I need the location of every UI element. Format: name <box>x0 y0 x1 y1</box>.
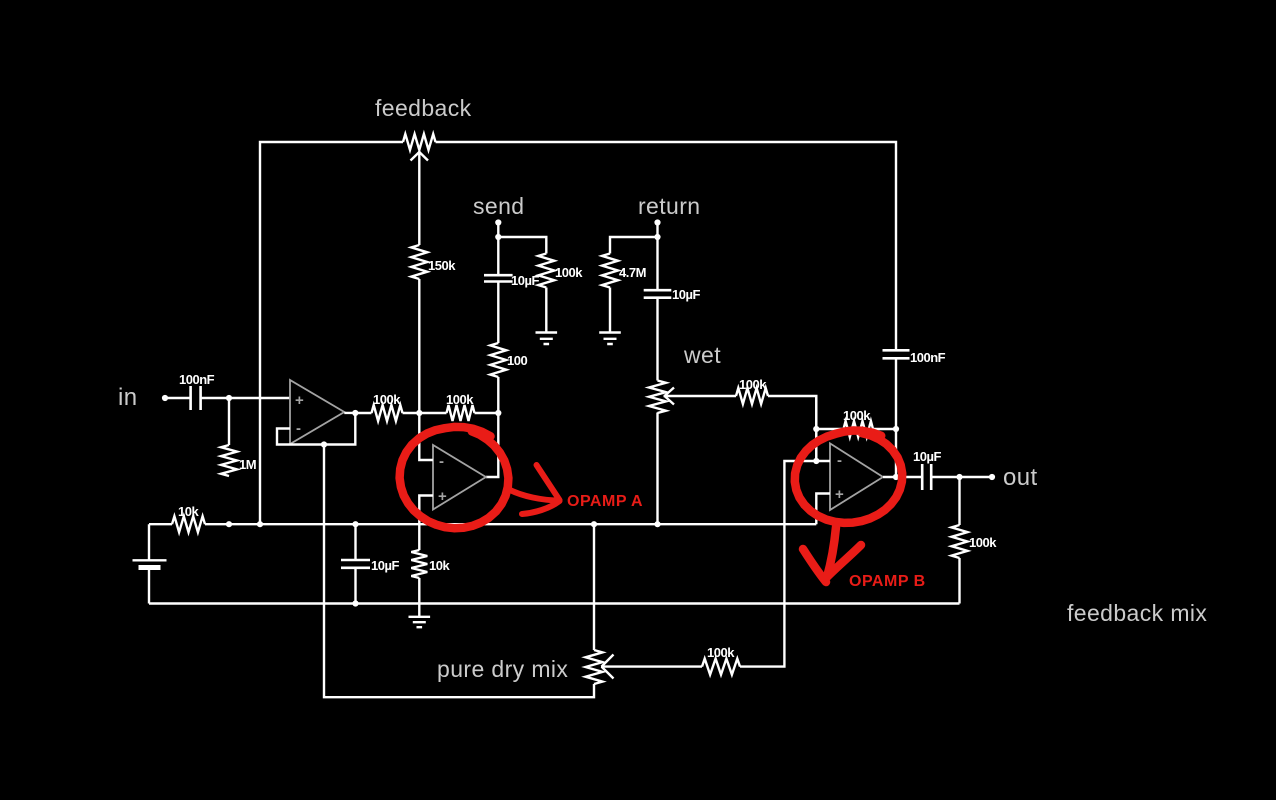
capacitor 10uF out <box>922 464 931 490</box>
capacitor 100nF in <box>191 386 201 410</box>
wire to ground <box>609 288 611 332</box>
wire 150k to node <box>418 279 420 413</box>
wire top loop <box>260 142 896 524</box>
resistor 4.7M <box>602 254 618 288</box>
wiper arrow wet <box>664 388 675 405</box>
svg-text:return: return <box>638 193 700 219</box>
wire in <box>165 397 290 399</box>
wire fb to right vertical <box>873 428 896 430</box>
wiper arrow feedback <box>411 151 429 245</box>
annotation arrow B <box>827 527 861 577</box>
svg-text:+: + <box>835 486 844 503</box>
wire to ground <box>545 288 547 332</box>
svg-text:10k: 10k <box>429 558 450 573</box>
svg-text:100nF: 100nF <box>179 372 215 387</box>
svg-text:100nF: 100nF <box>910 350 946 365</box>
node bottom cap <box>352 600 358 606</box>
svg-text:10µF: 10µF <box>672 287 700 302</box>
node opamp A inverting <box>416 410 422 416</box>
resistor 100k A1 <box>372 405 403 421</box>
potentiometer wet <box>649 381 666 414</box>
capacitor 10uF send <box>484 275 513 281</box>
resistor 100k send <box>538 254 554 288</box>
svg-text:pure dry mix: pure dry mix <box>437 656 568 682</box>
svg-text:10k: 10k <box>178 504 199 519</box>
node opamp A output net <box>495 410 501 416</box>
op-amp B <box>830 443 883 510</box>
node opamp B fb top <box>813 426 819 432</box>
resistor 1M <box>221 398 237 476</box>
wire out 100k <box>958 477 960 525</box>
node return terminal <box>654 219 660 225</box>
node opamp B output <box>893 474 899 480</box>
wire opamp A inverting input <box>419 413 433 460</box>
node out terminal <box>989 474 995 480</box>
svg-text:+: + <box>438 488 447 505</box>
svg-text:100k: 100k <box>555 265 583 280</box>
node rail 1M <box>226 521 232 527</box>
wire 100k to bottom rail <box>958 558 960 604</box>
potentiometer feedback <box>403 134 436 150</box>
node input junction <box>226 395 232 401</box>
node send terminal <box>495 219 501 225</box>
capacitor 100nF right <box>883 350 910 358</box>
resistor 100k out <box>952 525 968 558</box>
wire 10k to ground <box>418 578 420 616</box>
wire wet wiper <box>671 395 736 397</box>
annotation circle B <box>795 431 902 523</box>
node return junction <box>654 234 660 240</box>
annotation circle A <box>400 427 509 528</box>
svg-text:send: send <box>473 193 524 219</box>
resistor 10k gnd <box>411 550 427 578</box>
wire dry to opamp B minus <box>740 461 816 667</box>
wire bottom rail <box>149 602 960 604</box>
wire U1 out <box>355 412 371 414</box>
svg-text:10µF: 10µF <box>913 449 941 464</box>
node out junction <box>956 474 962 480</box>
wire between <box>403 412 447 414</box>
node rail cap <box>352 521 358 527</box>
ground send <box>536 333 558 345</box>
svg-text:feedback mix: feedback mix <box>1067 600 1207 626</box>
wire out <box>931 476 992 478</box>
svg-text:10µF: 10µF <box>371 558 399 573</box>
potentiometer pure dry mix <box>586 650 603 684</box>
op-amp U1 <box>290 380 344 444</box>
resistor 100k A2 <box>447 405 475 421</box>
svg-text:4.7M: 4.7M <box>619 265 646 280</box>
wire U1 feedback loop <box>277 413 355 445</box>
wire node down to opamp A output <box>486 413 498 477</box>
node fb right <box>893 426 899 432</box>
node send junction <box>495 234 501 240</box>
svg-text:+: + <box>295 392 304 409</box>
ground center <box>409 617 431 627</box>
svg-text:100k: 100k <box>843 408 871 423</box>
wire fb stub <box>816 428 843 430</box>
svg-text:in: in <box>118 384 137 411</box>
wire cap to 100 <box>497 282 499 344</box>
resistor 10k rail <box>172 516 205 532</box>
battery B1 <box>148 524 150 603</box>
svg-text:100k: 100k <box>969 535 997 550</box>
wire opamp B plus <box>816 494 830 525</box>
wire send <box>498 223 546 275</box>
wire mid rail <box>149 523 816 525</box>
node rail wetpot <box>654 521 660 527</box>
svg-text:100k: 100k <box>707 645 735 660</box>
svg-text:feedback: feedback <box>375 95 472 121</box>
wire wet to opamp B <box>768 396 816 461</box>
svg-text:wet: wet <box>683 342 721 368</box>
wire right vertical <box>895 358 897 477</box>
op-amp A <box>433 445 486 510</box>
svg-text:100: 100 <box>507 353 527 368</box>
wiper arrow dry <box>601 655 614 679</box>
resistor 100k fb B <box>844 421 874 437</box>
wire 100 to node <box>497 377 499 413</box>
annotation arrow A <box>507 489 560 501</box>
svg-text:OPAMP A: OPAMP A <box>567 493 643 510</box>
svg-text:100k: 100k <box>373 392 401 407</box>
node in terminal <box>162 395 168 401</box>
ground return <box>599 333 621 345</box>
wire wet pot to rail <box>656 413 658 525</box>
wire return <box>610 223 658 291</box>
capacitor 10uF return <box>644 290 672 298</box>
svg-text:100k: 100k <box>739 377 767 392</box>
svg-text:-: - <box>837 452 842 469</box>
resistor 100k wet <box>736 388 768 404</box>
wire opamp A non-inverting input <box>419 496 433 551</box>
svg-text:1M: 1M <box>239 457 256 472</box>
wire dry wiper <box>608 665 702 667</box>
wire opamp B minus node <box>816 396 830 461</box>
wire opamp B output <box>883 476 922 478</box>
svg-text:10µF: 10µF <box>511 273 539 288</box>
wire dry line <box>324 445 594 698</box>
svg-text:100k: 100k <box>446 392 474 407</box>
resistor 100k dry <box>702 659 740 675</box>
svg-text:OPAMP B: OPAMP B <box>849 573 926 590</box>
node U1 output <box>352 410 358 416</box>
node rail loop <box>257 521 263 527</box>
svg-text:-: - <box>296 420 301 437</box>
node dry tap <box>321 441 327 447</box>
capacitor 10uF rail <box>354 524 356 603</box>
wire to node <box>475 412 499 414</box>
node rail drypot <box>591 521 597 527</box>
svg-text:-: - <box>439 453 444 470</box>
node opamp B minus <box>813 458 819 464</box>
wire cap to wet pot <box>656 298 658 381</box>
svg-text:out: out <box>1003 464 1038 491</box>
resistor 150k <box>411 245 427 279</box>
svg-text:150k: 150k <box>428 258 456 273</box>
resistor 100 <box>490 343 506 377</box>
wire drypot top to rail <box>593 524 595 650</box>
